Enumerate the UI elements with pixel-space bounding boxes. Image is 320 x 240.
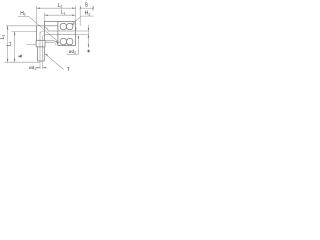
arrow L2 right	[72, 8, 76, 9]
body: cap boundary	[57, 22, 59, 46]
small mark below right dim	[88, 50, 90, 53]
body: bore top line	[48, 30, 75, 32]
arrow bore top down	[75, 28, 76, 32]
dim line L1	[44, 14, 75, 16]
svg-text:L3: L3	[0, 35, 6, 40]
body: leg left edge	[36, 26, 38, 41]
svg-text:T: T	[67, 67, 70, 73]
arrow phi d2 up	[78, 35, 79, 39]
seal circle bottom left	[60, 38, 67, 45]
body: shoulder inner line	[45, 43, 56, 46]
body: leg top face	[37, 25, 58, 27]
bore left line vertical	[39, 32, 41, 60]
phi d2 leader horizontal	[67, 53, 79, 55]
dim line right vertical	[87, 25, 89, 48]
thread left	[36, 47, 38, 61]
dim line L4 vertical inner	[14, 32, 16, 63]
thread right	[43, 47, 45, 61]
arrow L3 top	[7, 26, 8, 30]
arrow T leader	[45, 54, 48, 56]
seal circle top right	[66, 23, 73, 30]
arrow L4 top	[14, 32, 15, 35]
tick S right	[92, 7, 94, 10]
arrow phi d1 right	[42, 67, 46, 68]
arrow dim right top	[88, 28, 89, 31]
ext line bore-bottom to left dims	[12, 31, 37, 33]
body: back vertical	[43, 22, 45, 41]
body: inner bore fillet upper	[40, 31, 44, 33]
svg-text:H2: H2	[85, 11, 91, 17]
svg-text:ød1: ød1	[29, 65, 36, 71]
body: end face	[75, 22, 77, 46]
arrow L2 left	[37, 8, 41, 9]
arrow H2 leader	[71, 23, 75, 25]
body: bore bottom line	[46, 34, 76, 36]
seal circle top left	[60, 23, 67, 30]
hex nut bottom	[36, 46, 45, 48]
body: shoulder line	[44, 41, 58, 46]
tick mark left dim	[18, 55, 22, 58]
body: inner bore fillet lower	[42, 35, 46, 37]
arrow right dim lower end	[88, 44, 89, 47]
arrow L3 bottom	[7, 59, 8, 63]
ext line L1 left (back face up)	[43, 13, 45, 22]
thread bottom	[38, 60, 45, 62]
ext line S right	[92, 6, 94, 12]
ext line bore top right	[76, 30, 90, 32]
dim line L3 vertical outer	[7, 26, 9, 62]
ext line L2 left	[36, 6, 38, 25]
arrow L1 right	[72, 15, 76, 16]
ext line bottom left	[5, 61, 40, 63]
body: cartridge bottom edge	[58, 45, 76, 47]
body: inner corner fillet	[45, 27, 49, 31]
seal circle bottom right	[66, 38, 73, 45]
dim line phi d1 left part	[36, 67, 40, 69]
svg-text:L4: L4	[7, 42, 13, 47]
dim line L2	[37, 7, 76, 9]
ext line S left	[79, 6, 81, 27]
ext line top face to left dims	[6, 25, 37, 27]
dim line phi d1 right part	[42, 67, 46, 69]
arrow H1 leader	[56, 41, 60, 42]
svg-text:L1: L1	[61, 10, 66, 16]
ext line end face up	[75, 6, 77, 22]
phi d2 leader stem	[77, 36, 79, 54]
ext line hex left	[27, 43, 37, 45]
tick S left	[80, 7, 82, 10]
H1 leader	[29, 16, 60, 42]
body: cartridge top edge	[44, 21, 75, 23]
svg-text:ød2: ød2	[69, 49, 77, 55]
ext line phi d1 right	[41, 61, 43, 69]
bore right line vertical	[41, 37, 43, 61]
H2 underline	[81, 15, 93, 17]
ext line bore bottom right	[76, 34, 90, 36]
hex nut top	[36, 39, 45, 41]
H2 leader	[71, 16, 81, 25]
arrow dim right bottom	[88, 35, 89, 38]
arrow phi d1 left	[37, 67, 41, 68]
ext line phi d1 left	[39, 61, 41, 69]
hex nut right	[44, 40, 46, 47]
arrow L1 left	[44, 15, 48, 16]
svg-text:L2: L2	[58, 3, 63, 9]
T leader	[45, 54, 64, 70]
svg-text:H1: H1	[20, 11, 26, 17]
H1 underline	[18, 15, 29, 17]
dim line S	[80, 7, 93, 9]
hex nut left	[35, 40, 37, 47]
arrow L4 bottom	[14, 59, 15, 63]
